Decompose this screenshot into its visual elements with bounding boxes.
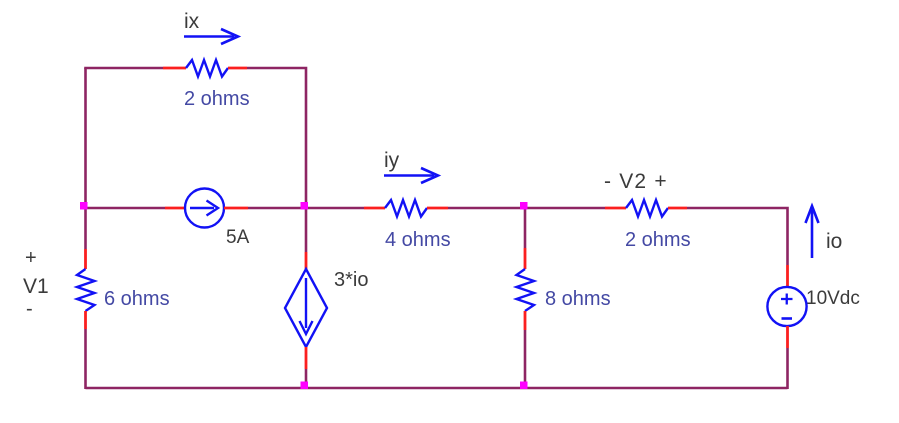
wire vertical middle-right branch lower [524,330,527,389]
value label 10Vdc [806,288,860,309]
resistor R1 2 ohms zigzag [186,60,228,77]
svg-text:iy: iy [384,149,400,172]
wire bottom rail [86,387,788,390]
wire middle right segment to corner [687,208,788,265]
resistor R4 8 ohms lead bottom (red) [524,311,527,330]
voltage source V2src plus mark [781,294,793,305]
value label 3*io [334,269,368,291]
value label 2 ohms (R1) [184,88,250,110]
value label 2 ohms (R5) [625,229,691,251]
resistor R2 4 ohms zigzag [385,200,427,217]
current source I1 lead right (red) [224,207,248,210]
wire middle segment R2 to node B [448,207,605,210]
resistor R1 2 ohms lead right (red) [228,67,247,70]
svg-text:5A: 5A [226,227,250,248]
dependent source G1 arrow down [300,278,313,334]
resistor R5 2 ohms lead right (red) [668,207,687,210]
wire top segment right of R1 to corner [247,68,306,207]
value label 8 ohms (R4) [545,288,611,310]
junction dot node A bottom [301,382,309,390]
label V1 plus [25,247,37,269]
svg-text:4 ohms: 4 ohms [385,229,451,251]
dependent source G1 diamond 3*io [285,269,327,347]
svg-text:8 ohms: 8 ohms [545,288,611,310]
dependent source G1 lead bottom (red) [305,347,308,369]
resistor R3 6 ohms lead top (red) [84,249,87,269]
dependent source G1 lead top (red) [305,252,308,269]
voltage source V2src lead top (red) [786,265,789,287]
resistor R2 4 ohms lead right (red) [427,207,448,210]
wire top-left loop: top segment left of R1 [86,68,164,69]
resistor R5 2 ohms zigzag [626,200,668,217]
junction dot node B bottom [520,382,528,390]
wire right vertical lower [786,348,789,389]
wire left vertical lower [84,329,87,389]
current source I1 arrow [190,201,218,216]
resistor R1 2 ohms lead left (red) [163,67,186,70]
svg-text:- V2 +: - V2 + [604,170,668,193]
svg-text:3*io: 3*io [334,269,368,291]
wire vertical middle-right branch upper (node B down to R4) [524,208,527,248]
voltage source V2src 10Vdc circle [767,287,806,326]
label - V2 + [604,170,668,193]
label V1 [23,275,49,298]
label iy [384,149,400,172]
wire left vertical upper (top loop to middle node) [84,68,87,208]
label io [826,230,842,253]
voltage source V2src minus mark [782,317,793,320]
value label 6 ohms (R3) [104,288,170,310]
svg-text:+: + [25,247,37,269]
svg-text:ix: ix [184,10,200,33]
resistor R5 2 ohms lead left (red) [605,207,626,210]
wire middle left segment [86,207,166,210]
junction dot node B top [520,202,528,210]
wire vertical middle-left branch upper (node A down to G1) [305,208,308,252]
wire vertical middle-left branch lower [305,369,308,389]
svg-text:10Vdc: 10Vdc [806,288,860,309]
label V1 minus [26,298,33,320]
wire left vertical between middle node and R3 [84,208,87,249]
current source I1 5A circle [185,189,224,228]
resistor R4 8 ohms zigzag [517,269,535,311]
resistor R2 4 ohms lead left (red) [364,207,385,210]
svg-text:2 ohms: 2 ohms [184,88,250,110]
wire middle segment node A to R2 [248,207,364,210]
voltage source V2src lead bottom (red) [786,326,789,348]
resistor R4 8 ohms lead top (red) [524,248,527,269]
svg-text:-: - [26,298,33,320]
resistor R3 6 ohms lead bottom (red) [84,311,87,329]
value label 4 ohms (R2) [385,229,451,251]
current arrow io [806,206,819,258]
current source I1 lead left (red) [165,207,185,210]
label ix [184,10,200,33]
current arrow ix [184,29,238,44]
svg-text:V1: V1 [23,275,49,298]
value label 5A [226,227,250,248]
junction dot node left (V1 top) [80,202,88,210]
svg-text:io: io [826,230,842,253]
svg-text:2 ohms: 2 ohms [625,229,691,251]
resistor R3 6 ohms zigzag [77,269,95,311]
svg-text:6 ohms: 6 ohms [104,288,170,310]
current arrow iy [384,168,438,183]
junction dot node A top [301,202,309,210]
